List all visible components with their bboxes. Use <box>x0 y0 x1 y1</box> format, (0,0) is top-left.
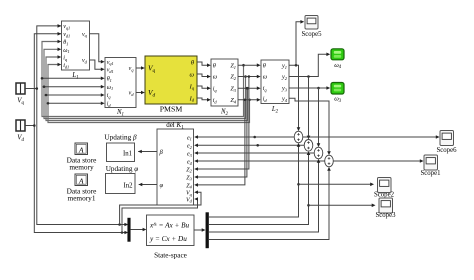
svg-text:θ: θ <box>213 62 216 69</box>
wire y2 to sum2 and omega4 display <box>289 53 330 140</box>
svg-text:Scope3: Scope3 <box>375 212 396 219</box>
svg-text:Z3: Z3 <box>186 175 192 181</box>
svg-text:ω1: ω1 <box>63 48 69 54</box>
svg-text:memory1: memory1 <box>68 194 96 203</box>
block State-space <box>147 215 195 259</box>
wire N1 vd to PMSM <box>136 91 145 95</box>
wire feedback band line 1 <box>42 40 245 117</box>
svg-text:In1: In1 <box>123 150 132 157</box>
block Data store memory1 <box>67 174 97 203</box>
svg-text:β: β <box>159 149 164 156</box>
block Data store memory <box>67 143 97 172</box>
wire branch to N1 id <box>47 102 105 106</box>
wire phi to In2 <box>139 183 158 187</box>
svg-text:In2: In2 <box>123 182 133 189</box>
svg-text:State-space: State-space <box>154 251 187 259</box>
wire y1 to sum1 and Scope5 <box>289 20 304 131</box>
svg-text:Updating φ: Updating φ <box>106 165 139 173</box>
display omega3 <box>331 83 344 105</box>
svg-text:y = Cx + Du: y = Cx + Du <box>149 235 187 243</box>
wire PMSM Id to N2 <box>197 98 211 102</box>
svg-text:Z4: Z4 <box>186 183 192 189</box>
wire branch to N1 theta1 <box>41 77 105 81</box>
wire Z3 to del K1 <box>194 87 248 179</box>
wire demux out1 to sum1 <box>209 143 300 217</box>
demux <box>206 213 209 249</box>
wire Vq source to vertical <box>25 88 37 90</box>
svg-text:Updating β: Updating β <box>104 134 137 142</box>
label Updating beta <box>104 134 137 142</box>
block PMSM <box>145 56 197 114</box>
svg-text:θ: θ <box>191 59 194 66</box>
wire feedback band line 2 <box>44 48 247 119</box>
svg-text:vd1: vd1 <box>107 68 114 74</box>
wire Z2 to del K1 <box>194 75 250 171</box>
svg-text:φ: φ <box>160 182 164 189</box>
block del K1 <box>157 121 194 205</box>
wire y4 to sum4 <box>289 98 331 155</box>
block L2 <box>261 60 289 115</box>
svg-text:e2: e2 <box>187 144 193 150</box>
sum block sum1 <box>294 131 303 143</box>
sum block sum3 <box>314 147 323 159</box>
wire Vd source to vertical <box>25 125 34 127</box>
wire N1 vq to PMSM <box>136 66 145 70</box>
wire e2 sum2 to del K1 <box>194 144 304 148</box>
svg-text:PMSM: PMSM <box>160 105 183 114</box>
wire demux out4 to sum4 <box>209 167 331 240</box>
svg-text:ω1: ω1 <box>107 85 113 91</box>
block N2 <box>211 59 238 117</box>
svg-text:e3: e3 <box>187 152 192 158</box>
svg-text:e4: e4 <box>187 160 193 166</box>
wire demux out3 to sum3 <box>209 159 320 232</box>
svg-text:id1: id1 <box>63 63 69 69</box>
wire branch to Scope3 <box>309 204 376 208</box>
block N1 <box>105 58 136 118</box>
svg-text:θ1: θ1 <box>63 40 68 46</box>
scope Scope1 <box>420 155 440 177</box>
svg-text:Scope6: Scope6 <box>436 147 457 154</box>
wire N2 Z1 to L2 <box>238 63 261 67</box>
wire PMSM theta to N2 <box>197 62 211 67</box>
svg-text:A: A <box>78 177 84 186</box>
sum block sum2 <box>304 140 313 152</box>
svg-text:Scope1: Scope1 <box>420 170 440 177</box>
svg-text:vq1: vq1 <box>63 24 70 30</box>
wire State-space to demux <box>194 228 206 232</box>
svg-text:ω: ω <box>263 74 268 81</box>
wire Vd net vertical and branches <box>33 32 128 234</box>
mux <box>128 218 131 242</box>
svg-text:A: A <box>78 146 84 155</box>
wire branch to Scope2 <box>299 183 375 187</box>
display omega4 <box>331 49 344 70</box>
svg-text:e1: e1 <box>187 135 192 141</box>
block L1 <box>62 21 90 80</box>
wire Vd hook to del K1 <box>122 197 198 232</box>
wire branch to N1 iq <box>45 93 105 97</box>
wire L1 vq to N1 <box>90 34 105 64</box>
wire L1 vd to N1 <box>90 60 105 71</box>
wire e4 sum4 to del K1 <box>194 159 325 163</box>
wire feedback band line 3 <box>46 55 249 120</box>
scope Scope2 <box>374 178 395 199</box>
wire Vq hook to del K1 <box>120 190 201 224</box>
block In2 <box>106 174 136 194</box>
wire Z4 to del K1 <box>194 99 246 187</box>
svg-text:Scope5: Scope5 <box>301 31 322 38</box>
svg-text:vd: vd <box>129 91 135 97</box>
svg-text:Vq: Vq <box>186 191 193 197</box>
wire PMSM Iq to N2 <box>197 86 211 90</box>
wire sum4 to Scope1 <box>333 159 423 163</box>
wire e1 sum1 to del K1 <box>194 135 294 139</box>
wire feedback band line 4 <box>48 63 251 123</box>
svg-text:θ1: θ1 <box>107 77 112 83</box>
wire y3 to omega3 display and sum3 <box>289 86 330 147</box>
svg-text:vd1: vd1 <box>63 32 70 38</box>
wire e3 sum3 to del K1 <box>194 151 314 155</box>
scope Scope5 <box>301 16 322 39</box>
wire mux to State-space <box>130 228 146 232</box>
source block Vd <box>16 120 25 143</box>
wire N2 Z4 to L2 <box>238 98 261 102</box>
wire N2 Z2 to L2 <box>238 75 261 79</box>
wire beta to In1 <box>138 150 157 154</box>
svg-text:Scope2: Scope2 <box>374 191 395 198</box>
source block Vq <box>16 83 25 106</box>
wire N2 Z3 to L2 <box>238 86 261 90</box>
wire Vq net vertical and branches <box>36 24 129 226</box>
svg-text:ω: ω <box>189 71 194 78</box>
scope Scope3 <box>375 198 396 219</box>
svg-text:vq1: vq1 <box>107 60 114 66</box>
wire PMSM omega to N2 <box>197 74 211 78</box>
svg-text:vd: vd <box>82 58 88 64</box>
sum block sum4 <box>325 155 334 167</box>
svg-text:memory: memory <box>69 163 94 172</box>
wire branch to N1 omega1 <box>43 85 105 89</box>
svg-text:vq: vq <box>82 32 88 38</box>
svg-text:vq: vq <box>129 66 135 72</box>
block In1 <box>107 143 135 162</box>
svg-text:Vd: Vd <box>186 197 193 203</box>
scope Scope6 <box>436 131 457 154</box>
svg-text:Z2: Z2 <box>186 167 192 173</box>
wire demux out2 to sum2 <box>209 151 310 224</box>
wire sum1 to Scope6 <box>303 135 440 139</box>
label Updating phi <box>106 165 139 173</box>
svg-text:θ: θ <box>263 62 266 69</box>
svg-text:ω: ω <box>213 74 218 81</box>
